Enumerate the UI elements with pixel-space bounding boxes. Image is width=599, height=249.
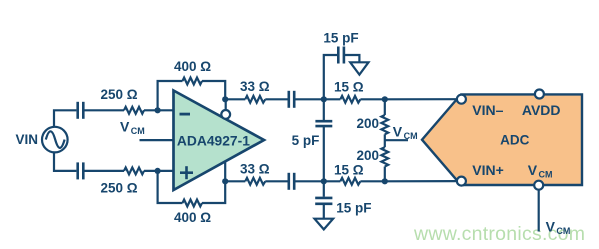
resistor 33Ω bottom [245,178,265,185]
wire feedback bottom left leg [158,171,183,203]
svg-text:CM: CM [404,131,418,141]
svg-text:200: 200 [356,116,379,131]
pin VIN- (open circle) [457,95,466,104]
wire cap to R250 bottom [85,170,125,172]
wire node to R15 top [324,98,340,100]
wire node to R15 bottom [324,180,340,182]
ground bottom [315,219,334,230]
wire output bottom to R33 [225,180,245,182]
resistor 200Ω upper [356,99,388,134]
op-amp U1 ADA4927-1 [174,91,265,191]
wire output bottom [224,162,226,181]
svg-text:15 pF: 15 pF [336,200,371,215]
resistor 200Ω lower [356,147,388,181]
label VCM bottom [546,218,571,236]
svg-text:VIN: VIN [16,132,39,147]
svg-text:200: 200 [356,148,379,163]
wire cap to R250 top [85,109,125,111]
node output bottom [222,178,228,184]
ADC block [422,94,582,185]
svg-text:ADA4927-1: ADA4927-1 [177,132,250,148]
svg-text:33 Ω: 33 Ω [240,161,270,176]
svg-text:CM: CM [539,169,553,179]
resistor 400Ω bottom feedback [183,200,203,207]
wire VCM pin down [538,190,540,232]
node output top [222,96,228,102]
svg-text:33 Ω: 33 Ω [240,79,270,94]
svg-text:AVDD: AVDD [522,102,561,118]
svg-text:400 Ω: 400 Ω [174,59,211,74]
svg-text:VIN+: VIN+ [472,162,504,178]
pin output top (open circle) [221,99,230,119]
svg-text:V: V [528,162,538,178]
capacitor 15pF bottom to ground [315,181,371,218]
capacitor input bottom (plates) [78,162,84,179]
pin VIN+ (open circle) [457,177,466,186]
node input top [155,107,161,113]
wire feedback top right leg [202,81,225,99]
resistor 400Ω top feedback [183,78,203,85]
wire series cap to node top [295,98,324,100]
capacitor series bottom (plates) [289,173,294,190]
wire series cap to node bottom [295,180,324,182]
svg-text:250 Ω: 250 Ω [100,87,137,102]
wire R15 bottom to node2 [360,180,384,182]
wire output top to R33 [225,98,245,100]
node input bottom [155,168,161,174]
wire R33 to series cap top [265,98,288,100]
label VCM mid [393,124,418,142]
pin AVDD (open circle) [535,90,544,99]
svg-text:15 Ω: 15 Ω [334,80,364,95]
wire VCM stub to amp [140,139,176,141]
capacitor input top (plates) [78,102,84,119]
capacitor 5pF [292,99,333,181]
wire node2 to ADC VIN- [385,98,457,100]
svg-text:ADC: ADC [500,132,529,147]
wire feedback bottom right leg [202,181,225,203]
resistor 250Ω bottom [124,168,144,175]
svg-text:5 pF: 5 pF [292,133,320,148]
svg-text:CM: CM [556,226,570,236]
wire source top lead [54,110,76,126]
svg-text:CM: CM [131,126,145,136]
source VIN generator [42,127,68,153]
wire R33 to series cap bottom [265,180,288,182]
capacitor series top (plates) [289,91,294,108]
svg-text:V: V [120,119,130,135]
svg-text:400 Ω: 400 Ω [174,210,211,225]
wire node2 to ADC VIN+ [385,180,457,182]
ground top [350,62,368,74]
resistor 15Ω bottom [340,178,360,185]
svg-text:V: V [393,124,403,140]
svg-text:250 Ω: 250 Ω [100,180,137,195]
resistor 33Ω top [245,96,265,103]
wire R15 top to node2 [360,98,384,100]
wire feedback top left leg [158,81,183,110]
wire R250 to amp bottom [144,170,175,172]
svg-text:15 Ω: 15 Ω [334,163,364,178]
resistor 15Ω top [340,96,360,103]
capacitor 15pF top to ground [323,30,359,99]
svg-text:15 pF: 15 pF [323,30,358,45]
svg-text:V: V [546,218,556,234]
node R200 top [382,96,388,102]
node R200 bottom [382,178,388,184]
resistor 250Ω top [124,107,144,114]
svg-text:VIN–: VIN– [472,102,503,118]
node filter bottom [321,178,327,184]
pin VCM (open circle) [534,181,543,190]
node filter top [321,96,327,102]
wire source bottom lead [54,153,76,171]
wire R250 to amp top [144,109,175,111]
label VCM left [120,119,145,137]
wire VCM stub mid [385,134,408,147]
